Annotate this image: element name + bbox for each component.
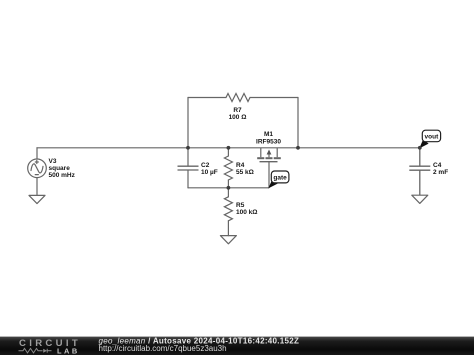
svg-text:100 kΩ: 100 kΩ xyxy=(236,209,257,216)
label V3 xyxy=(49,158,76,179)
resistor R4 xyxy=(224,148,232,188)
wire main horizontal xyxy=(37,147,420,149)
junction node at right riser xyxy=(296,146,300,150)
transistor M1 (PMOS IRF9530) xyxy=(257,148,281,188)
svg-text:vout: vout xyxy=(425,134,440,141)
svg-text:2 mF: 2 mF xyxy=(433,169,448,176)
svg-text:10 µF: 10 µF xyxy=(201,169,218,176)
resistor R7 xyxy=(226,94,250,102)
junction node at R4/R5 bottom xyxy=(227,186,231,190)
svg-text:M1: M1 xyxy=(264,131,273,138)
svg-text:100 Ω: 100 Ω xyxy=(229,114,247,121)
label R4 xyxy=(236,162,254,176)
footer logo CIRCUIT LAB xyxy=(19,338,82,355)
wire C2 branch vertical xyxy=(187,148,189,166)
resistor R5 xyxy=(224,188,232,236)
label M1 xyxy=(256,131,281,146)
junction node at vout xyxy=(418,146,422,150)
wire top-left vertical xyxy=(187,98,189,148)
svg-text:500 mHz: 500 mHz xyxy=(49,172,76,179)
svg-text:IRF9530: IRF9530 xyxy=(256,138,281,145)
svg-text:V3: V3 xyxy=(49,158,57,165)
junction node at C2 top xyxy=(186,146,190,150)
label C4 xyxy=(433,162,448,176)
ground for R5 xyxy=(220,236,236,244)
junction node at R4 top xyxy=(227,146,231,150)
capacitor C2 xyxy=(178,166,199,170)
svg-text:C4: C4 xyxy=(433,162,442,169)
footer bar xyxy=(0,337,474,355)
svg-text:R5: R5 xyxy=(236,202,245,209)
svg-text:http://circuitlab.com/c7qbue5z: http://circuitlab.com/c7qbue5z3au3h xyxy=(99,344,227,353)
wire top-right vertical xyxy=(297,98,299,148)
svg-text:R7: R7 xyxy=(233,107,242,114)
label C2 xyxy=(201,162,218,176)
node gate flag xyxy=(268,171,289,188)
capacitor C4 xyxy=(409,148,430,195)
svg-text:C2: C2 xyxy=(201,162,210,169)
label R5 xyxy=(236,202,257,216)
node vout flag xyxy=(419,130,440,148)
svg-text:square: square xyxy=(49,165,71,172)
wire bottom horizontal xyxy=(188,187,269,189)
svg-text:gate: gate xyxy=(273,175,287,182)
ground for V3 xyxy=(29,195,45,203)
svg-text:55 kΩ: 55 kΩ xyxy=(236,169,254,176)
ground for C4 xyxy=(412,195,428,203)
wire top horizontal right lead xyxy=(250,97,298,99)
wire top horizontal left lead xyxy=(188,97,226,99)
svg-text:R4: R4 xyxy=(236,162,245,169)
svg-text:LAB: LAB xyxy=(57,346,80,355)
voltage source V3 xyxy=(28,148,47,196)
label R7 xyxy=(229,107,247,121)
